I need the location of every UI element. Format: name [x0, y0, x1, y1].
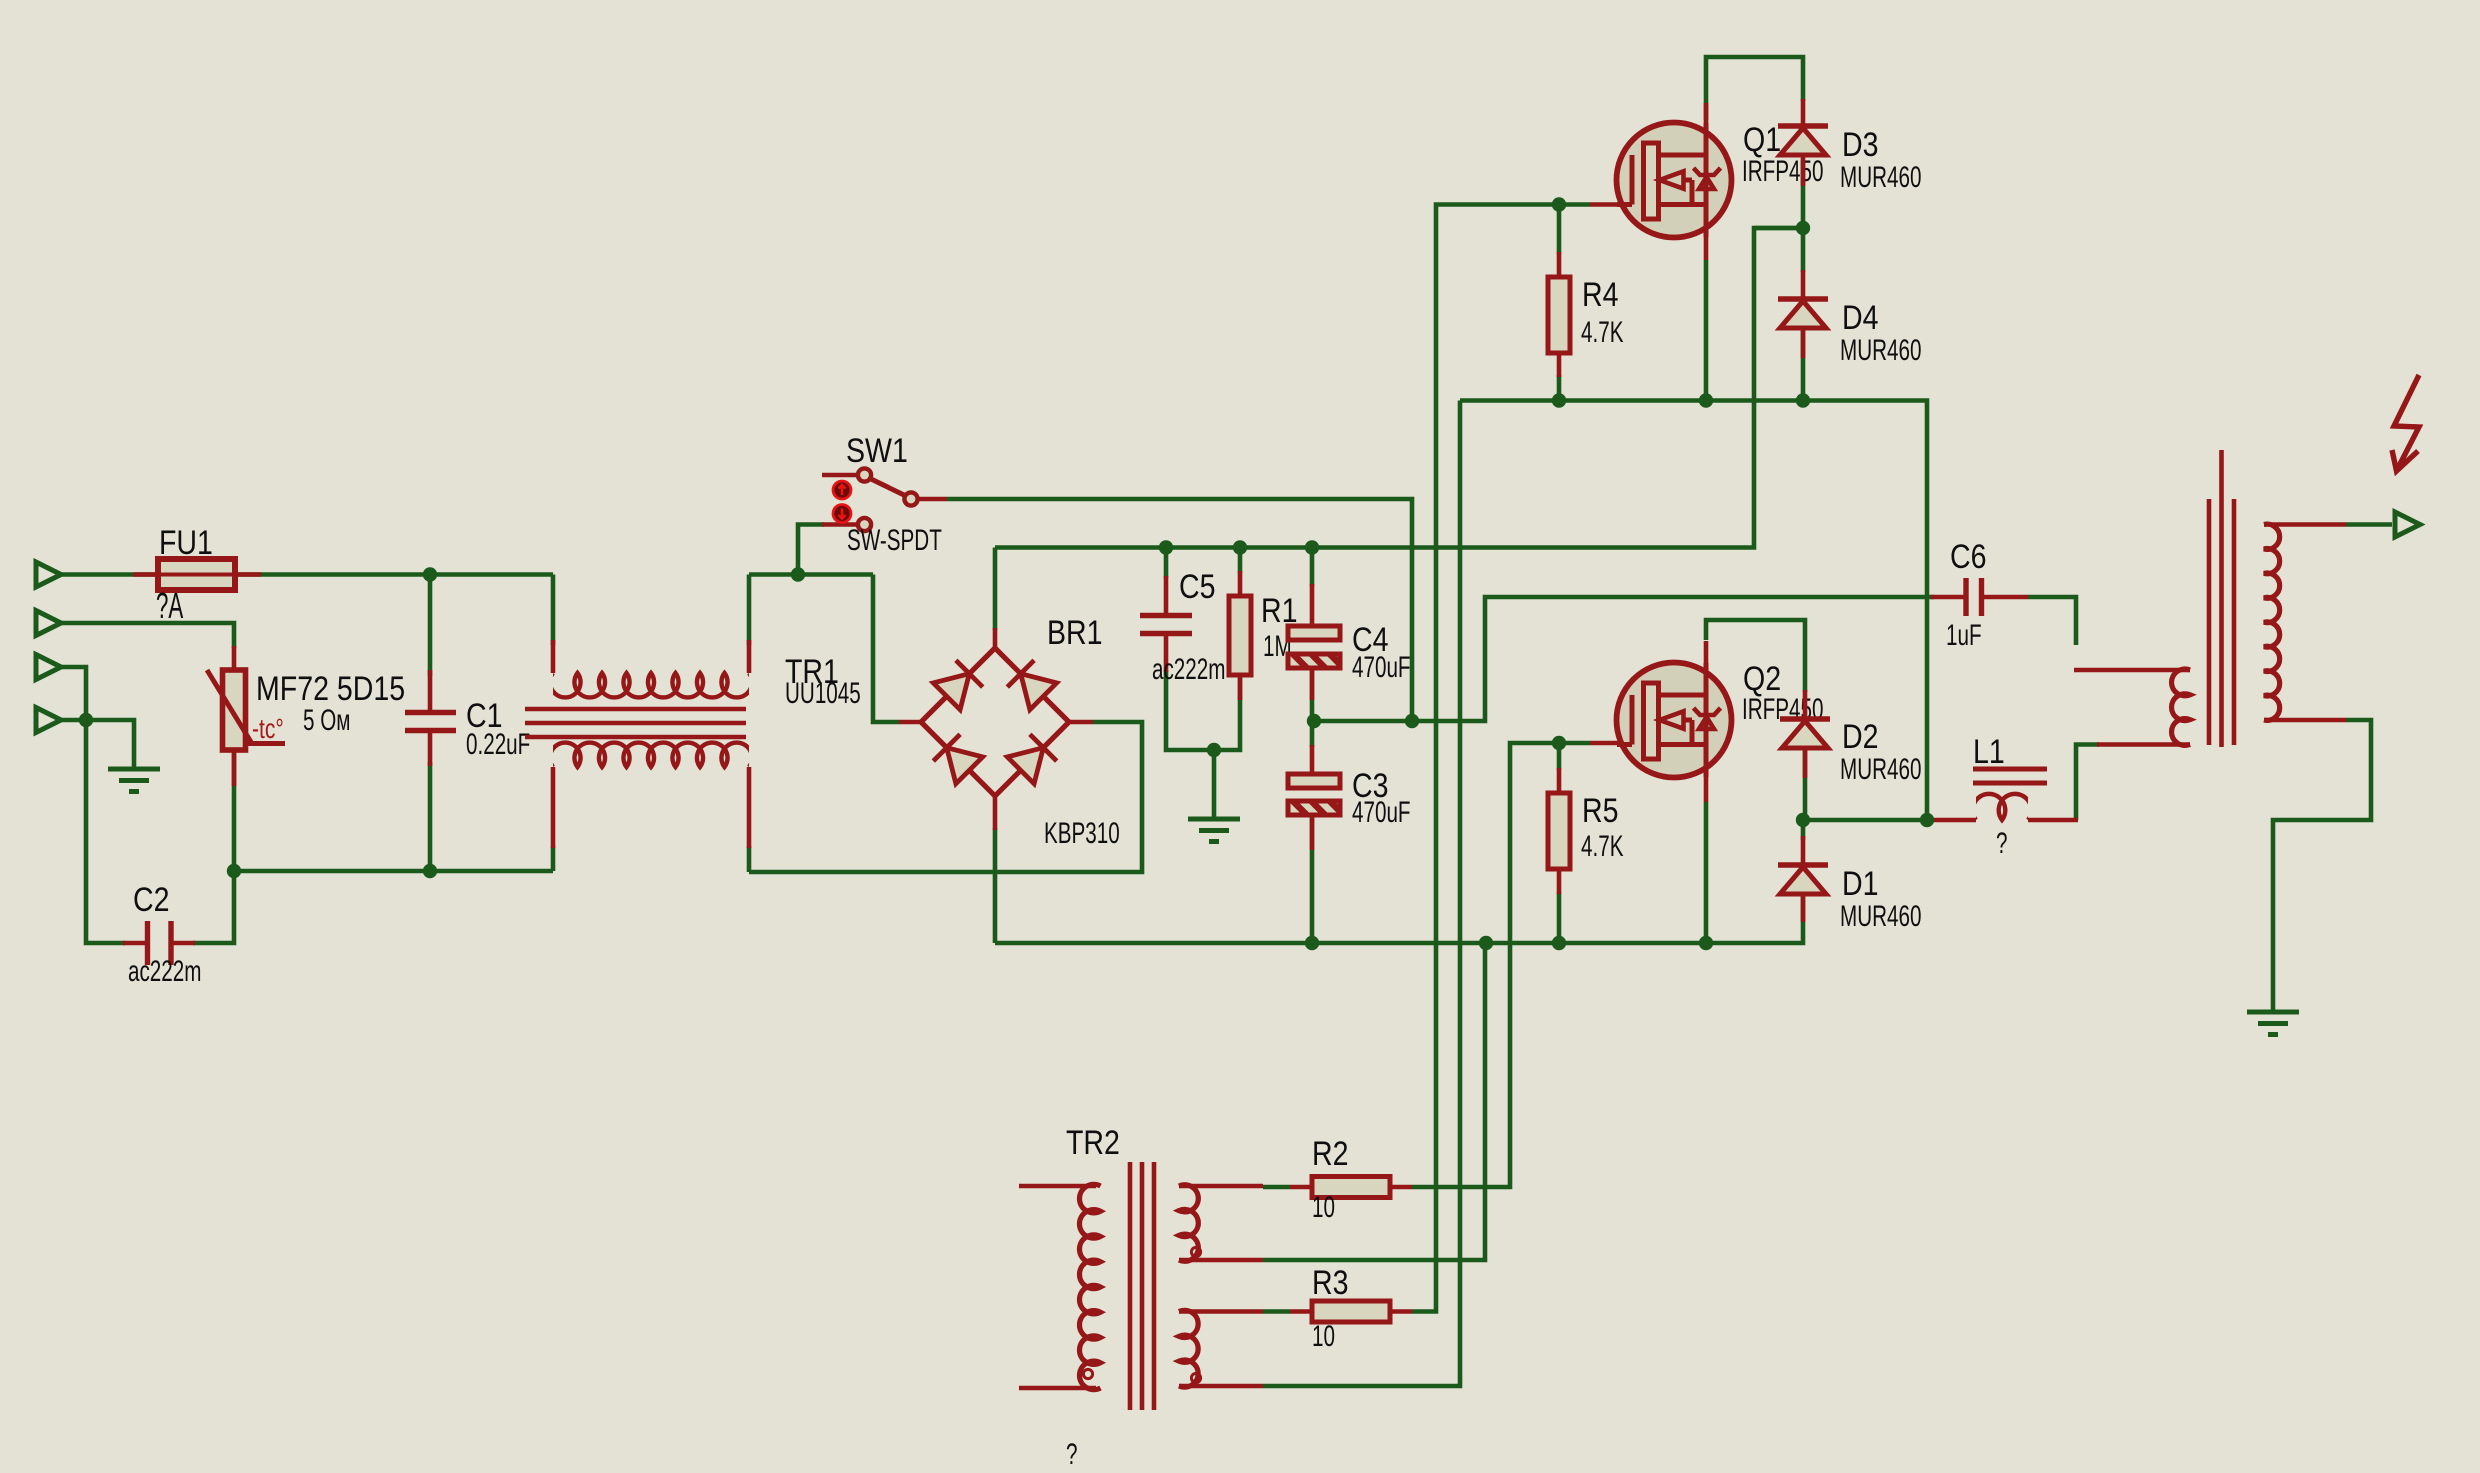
wire C3 bottom to DC- rail [1310, 813, 1315, 943]
wire MF72 bottom to left bottom rail [232, 748, 237, 871]
label TR2 value ? [1066, 1439, 1077, 1471]
bridge BR1 pins [899, 628, 1093, 830]
label C4 ref [1352, 621, 1388, 659]
diode D4 pins [1801, 270, 1806, 358]
junction node B earth [79, 713, 93, 727]
label C4 value [1352, 652, 1411, 684]
wire C1 branch lower [428, 762, 433, 871]
label Q2 ref [1743, 660, 1781, 698]
bridge BR1 diode AC-left to plus [933, 660, 982, 709]
terminal input 2 (N) [36, 611, 61, 636]
transformer TRX primary bottom pin [2097, 742, 2190, 747]
label C6 ref [1950, 538, 1986, 576]
wire output secondary top to terminal [2346, 522, 2392, 527]
resistor R4 [1548, 252, 1570, 377]
svg-text:D3: D3 [1842, 126, 1878, 164]
transformer TRX secondary winding [2264, 524, 2280, 720]
switch SW1 pin circles [858, 468, 918, 531]
fuse FU1 [133, 559, 261, 590]
label R2 value 10 [1312, 1192, 1335, 1224]
wire TR1 primary top-right pin rise [747, 575, 752, 646]
wire node D to L1 [1803, 818, 1934, 823]
label R4 ref [1582, 276, 1618, 314]
wire C3 top pin from midpoint node [1310, 721, 1315, 747]
transformer TR2 winding 3 top pin [1179, 1184, 1263, 1189]
wire node A down to BR1 AC left [873, 575, 899, 723]
ground symbol filter node [1188, 819, 1240, 842]
wire R5 top pin [1557, 743, 1562, 770]
label R4 value [1581, 317, 1623, 349]
svg-text:UU1045: UU1045 [785, 678, 861, 710]
wire C2 right up to left bottom rail [193, 871, 234, 943]
spark lightning symbol [2392, 375, 2419, 471]
capacitor C5 [1140, 576, 1192, 672]
label D1 ref [1842, 865, 1878, 903]
wire Q1 source rail down to TR2 winding 4 [1263, 401, 1460, 1387]
svg-text:MF72 5D15: MF72 5D15 [256, 670, 405, 708]
label C1 ref [466, 697, 502, 735]
svg-text:D4: D4 [1842, 299, 1878, 337]
junction node Q1 source rail [1699, 393, 1713, 407]
label FU1 value ?A [156, 587, 183, 627]
transistor Q2 IRFP450 [1617, 663, 1732, 778]
bridge BR1 diamond [921, 648, 1069, 796]
label SW1 type [847, 525, 942, 557]
capacitor C2 [123, 921, 195, 965]
svg-text:TR2: TR2 [1066, 1124, 1120, 1162]
transformer TR2 winding 3 bottom pin [1179, 1258, 1263, 1263]
junction node D to rail riser [1920, 813, 1934, 827]
label R3 value 10 [1312, 1321, 1335, 1353]
svg-text:4.7K: 4.7K [1581, 831, 1623, 863]
junction node C5/R1 ground [1207, 743, 1221, 757]
label SW1 ref [846, 432, 908, 470]
capacitor C1 [405, 670, 456, 766]
svg-text:4.7K: 4.7K [1581, 317, 1623, 349]
svg-text:KBP310: KBP310 [1044, 818, 1120, 850]
diode D1 MUR460 [1778, 865, 1828, 894]
resistor R5 [1548, 768, 1570, 894]
wire R4 top pin [1557, 205, 1562, 255]
transformer TR1 bottom winding [550, 743, 752, 767]
label -tc deg [252, 714, 284, 745]
resistor R3 [1290, 1301, 1412, 1322]
label D4 ref [1842, 299, 1878, 337]
wire C4 top pin [1310, 548, 1315, 587]
wire TR1 bottom-right pin drop [747, 846, 752, 872]
wire R1 top pin [1238, 548, 1243, 574]
label BR1 ref [1047, 614, 1103, 652]
label R3 ref [1312, 1264, 1348, 1302]
svg-text:MUR460: MUR460 [1840, 901, 1921, 933]
switch SW1 up actuator [833, 481, 851, 499]
label BR1 value KBP310 [1044, 818, 1120, 850]
junction node D D2/D1 mid [1796, 813, 1810, 827]
bridge BR1 diode minus to AC-right [1007, 734, 1056, 783]
junction node TR2 w3 rail [1479, 936, 1493, 950]
label R5 value [1581, 831, 1623, 863]
junction node C1 bottom [423, 864, 437, 878]
label C5 value [1152, 654, 1225, 686]
transistor Q1 IRFP450 [1617, 123, 1732, 238]
wire TR1 primary top-left pin drop [551, 575, 556, 646]
wire upper rail Q1 source / D4 anode [1460, 401, 1927, 821]
junction node R5 bottom [1552, 936, 1566, 950]
wire output transformer primary bottom corner [2076, 745, 2099, 821]
capacitor C4 electrolytic [1288, 584, 1340, 700]
wire DC- bottom rail [995, 892, 1803, 943]
label C2 ref [133, 881, 169, 919]
wire Q1 gate line down to R3 [1412, 205, 1590, 1312]
wire C1 branch upper [428, 575, 433, 677]
svg-text:C2: C2 [133, 881, 169, 919]
transformer TR2 winding 3 [1179, 1185, 1198, 1262]
wire ground stem below C5/R1 node [1212, 750, 1217, 819]
ground symbol left input [108, 769, 160, 792]
svg-text:ac222m: ac222m [128, 956, 201, 988]
transformer TR1 core lines [525, 709, 746, 737]
label C3 value [1352, 797, 1411, 829]
transistor Q2 pins [1590, 641, 1706, 802]
transformer TR2 primary phase dot [1083, 1369, 1092, 1378]
wire Q2 drain loop to D2 cathode [1706, 620, 1805, 692]
label R2 ref [1312, 1135, 1348, 1173]
svg-text:10: 10 [1312, 1192, 1335, 1224]
label D4 value MUR460 [1840, 335, 1921, 367]
wire R3 left link [1263, 1309, 1290, 1314]
transformer TR1 top winding [550, 673, 752, 697]
junction node SW1 to midpoint [1405, 714, 1419, 728]
wire Q1 drain loop to D3 cathode [1706, 57, 1803, 120]
wire left bottom rail [234, 869, 553, 874]
diode D2 MUR460 [1780, 719, 1830, 748]
svg-text:MUR460: MUR460 [1840, 162, 1921, 194]
junction node C4/C3 midpoint [1307, 714, 1321, 728]
junction node FU1/C1 [423, 567, 437, 581]
junction node C5 top [1159, 540, 1173, 554]
capacitor C3 electrolytic [1288, 745, 1340, 850]
svg-text:BR1: BR1 [1047, 614, 1103, 652]
svg-text:D1: D1 [1842, 865, 1878, 903]
junction node C D3/D4 mid [1796, 221, 1810, 235]
diode D2 pins [1803, 690, 1808, 778]
transformer TR2 primary winding [1079, 1184, 1100, 1389]
label D1 value MUR460 [1840, 901, 1921, 933]
terminal output [2395, 512, 2420, 537]
svg-text:D2: D2 [1842, 718, 1878, 756]
wire TR1 bottom-right to BR1 AC right [749, 722, 1142, 872]
label C5 ref [1179, 568, 1215, 606]
transformer TR2 primary pins [1019, 1186, 1096, 1388]
svg-text:-tc°: -tc° [252, 714, 284, 745]
svg-text:10: 10 [1312, 1321, 1335, 1353]
wire D3 anode to node C [1801, 160, 1806, 272]
resistor R2 [1290, 1177, 1412, 1198]
junction node Q2 gate/R5 [1552, 736, 1566, 750]
wire TR2 winding 3 bottom to DC- rail [1263, 943, 1485, 1260]
wire C5 top pin [1164, 548, 1169, 579]
bridge BR1 diode AC-right to plus [1007, 660, 1056, 709]
transformer TR2 winding 4 phase dot [1191, 1373, 1200, 1382]
wire cap midpoint to C6 [1314, 597, 1934, 721]
wire node B down to C2 left [86, 720, 125, 943]
svg-text:FU1: FU1 [159, 524, 213, 562]
wire DC+ rail to D3/D4 midpoint branch [995, 228, 1803, 548]
wire C5 bottom to ground node [1166, 670, 1214, 750]
svg-text:SW1: SW1 [846, 432, 908, 470]
transformer TRX primary winding [2172, 669, 2190, 745]
switch SW1 lever [869, 478, 906, 496]
resistor R1 [1229, 571, 1251, 700]
label D2 ref [1842, 718, 1878, 756]
label FU1 ref [159, 524, 213, 562]
junction node R4 bottom rail [1552, 393, 1566, 407]
wire earth input 4 to node B and ground branch [61, 720, 134, 769]
wire R2 left link [1263, 1185, 1290, 1190]
svg-text:1uF: 1uF [1946, 620, 1982, 652]
svg-text:?A: ?A [156, 587, 183, 627]
transformer TR2 core lines [1130, 1162, 1154, 1410]
label D3 ref [1842, 126, 1878, 164]
svg-text:IRFP450: IRFP450 [1742, 156, 1823, 188]
label L1 ref [1973, 733, 2005, 771]
inductor L1 [1934, 794, 2078, 820]
wire SW1 common to cap midpoint [947, 499, 1412, 721]
label Q2 value IRFP450 [1742, 694, 1823, 726]
label C1 value [466, 729, 530, 761]
junction node C3 bottom rail [1305, 936, 1319, 950]
terminal input 4 (E) [36, 708, 61, 733]
inductor L1 core lines [1973, 769, 2047, 783]
svg-text:?: ? [1066, 1439, 1077, 1471]
svg-text:ac222m: ac222m [1152, 654, 1225, 686]
transformer TR2 winding 4 bottom pin [1179, 1384, 1263, 1389]
label L1 value ? [1996, 828, 2007, 860]
bridge BR1 diode minus to AC-left [933, 734, 982, 783]
wire Q2 gate line down to R2 [1412, 743, 1590, 1187]
transformer TRX primary top pin [2074, 668, 2190, 673]
svg-text:R3: R3 [1312, 1264, 1348, 1302]
transformer TR2 winding 4 [1179, 1310, 1198, 1387]
label Q1 ref [1743, 121, 1781, 159]
junction node D4 rail [1796, 393, 1810, 407]
transformer TRX secondary bottom pin [2264, 718, 2346, 723]
svg-text:R5: R5 [1582, 792, 1618, 830]
svg-text:0.22uF: 0.22uF [466, 729, 530, 761]
svg-text:R4: R4 [1582, 276, 1618, 314]
wire R4 bottom pin [1557, 375, 1562, 401]
wire D2 anode to node D [1803, 748, 1808, 820]
diode D3 MUR460 [1778, 126, 1828, 155]
transformer TR1 primary pins red [553, 640, 749, 848]
terminal input 1 (L) [36, 562, 61, 587]
svg-text:470uF: 470uF [1352, 797, 1411, 829]
transformer TRX core lines [2209, 450, 2234, 747]
wire C4 bottom to midpoint node [1310, 666, 1315, 721]
wire R1 bottom to ground node [1214, 673, 1240, 750]
diode D3 pins [1801, 99, 1806, 186]
switch SW1 throw stubs [822, 475, 947, 525]
wire node A to SW1 branch point [749, 572, 873, 577]
wire TR1 bottom-left pin to rail [551, 846, 556, 871]
svg-text:SW-SPDT: SW-SPDT [847, 525, 942, 557]
transformer TR2 winding 4 top pin [1179, 1309, 1263, 1314]
terminal input 3 (E) [36, 655, 61, 680]
label D2 value MUR460 [1840, 754, 1921, 786]
junction node MF72/C2/rail [227, 864, 241, 878]
wire Q1 source pin [1704, 260, 1709, 401]
label TR1 ref [785, 653, 839, 691]
label C6 value [1946, 620, 1982, 652]
transformer TR2 winding 3 phase dot [1191, 1247, 1200, 1256]
thermistor MF72 5D15 body [207, 670, 285, 750]
wire node D to D1 cathode [1801, 820, 1806, 840]
wire D4 anode to upper rail [1801, 330, 1806, 401]
ground symbol output [2247, 1012, 2299, 1035]
wire Q2 source pin to DC- rail [1704, 802, 1709, 943]
label TR1 value UU1045 [785, 678, 861, 710]
svg-text:L1: L1 [1973, 733, 2005, 771]
wire mains N input to MF72 [61, 623, 234, 648]
switch SW1 down actuator [833, 505, 851, 523]
wire earth input 3 to node B [61, 667, 86, 720]
diode D4 MUR460 [1778, 299, 1828, 328]
junction node Q1 gate/R4 [1552, 197, 1566, 211]
label TR2 ref [1066, 1124, 1120, 1162]
label R1 value 1M [1263, 631, 1292, 663]
svg-text:C5: C5 [1179, 568, 1215, 606]
wire BR1 plus up to DC+ rail [993, 548, 998, 631]
svg-text:Q2: Q2 [1743, 660, 1781, 698]
label 5 Om value [303, 705, 350, 737]
svg-text:C6: C6 [1950, 538, 1986, 576]
thermistor MF72 pins [232, 646, 237, 786]
wire mains L input from terminal to FU1 and onward to node A [61, 572, 553, 577]
capacitor C6 [1931, 578, 2028, 616]
svg-text:MUR460: MUR460 [1840, 754, 1921, 786]
junction node A SW1 branch [791, 567, 805, 581]
svg-text:470uF: 470uF [1352, 652, 1411, 684]
diode D1 pins [1801, 836, 1806, 922]
label C3 ref [1352, 767, 1388, 805]
wire SW1 throw-2 branch up [798, 525, 824, 575]
wire output secondary bottom to ground [2273, 720, 2371, 1012]
svg-text:Q1: Q1 [1743, 121, 1781, 159]
svg-text:R2: R2 [1312, 1135, 1348, 1173]
junction node C4 top [1305, 540, 1319, 554]
label C2 value [128, 956, 201, 988]
svg-text:MUR460: MUR460 [1840, 335, 1921, 367]
junction node R1 top [1233, 540, 1247, 554]
label R1 ref [1261, 592, 1297, 630]
wire node C branch to DC+ rail [1754, 226, 1803, 231]
transistor Q1 pins [1590, 103, 1706, 260]
label R5 ref [1582, 792, 1618, 830]
svg-text:5 Ом: 5 Ом [303, 705, 350, 737]
label D3 value MUR460 [1840, 162, 1921, 194]
junction node Q2 source rail [1699, 936, 1713, 950]
transformer TRX secondary top pin [2264, 522, 2346, 527]
wire R5 bottom pin [1557, 892, 1562, 943]
wire BR1 minus down to DC- rail [993, 828, 998, 943]
wire C6 right to output transformer primary top [2028, 597, 2076, 645]
label Q1 value IRFP450 [1742, 156, 1823, 188]
svg-text:?: ? [1996, 828, 2007, 860]
label MF72 5D15 [256, 670, 405, 708]
